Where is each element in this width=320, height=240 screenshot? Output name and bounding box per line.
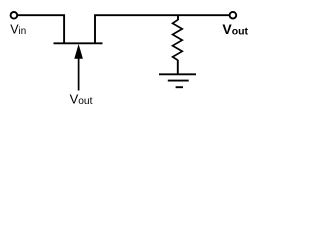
svg-text:Vout: Vout bbox=[222, 21, 248, 37]
svg-text:Vout: Vout bbox=[70, 92, 93, 108]
svg-text:Vin: Vin bbox=[10, 22, 26, 37]
